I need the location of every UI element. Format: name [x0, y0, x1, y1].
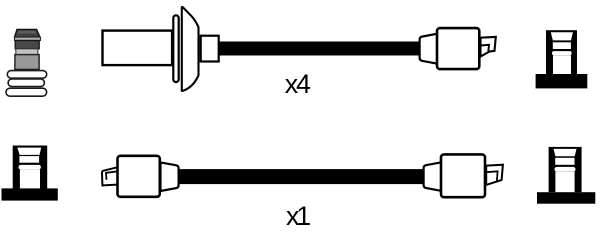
lead1 cable entry block — [201, 36, 219, 62]
connector icon bottom-right: cavity — [554, 149, 577, 195]
spark plug boot icon: lower light band — [16, 49, 38, 55]
spark plug boot icon: cap — [15, 29, 40, 37]
connector icon bottom-right: body block — [549, 147, 582, 192]
spark plug boot icon: rib 3 — [6, 88, 47, 96]
lead2 cable — [179, 169, 424, 184]
lead2 plug-end body right — [441, 154, 485, 197]
lead2 terminal clip right — [486, 165, 503, 185]
lead1 cable — [218, 42, 420, 56]
lead1 distributor-end rectangular terminal — [103, 31, 173, 66]
connector icon top-right: cavity — [551, 32, 573, 80]
lead2 terminal clip left — [102, 167, 118, 185]
label x4 — [285, 69, 311, 99]
connector icon bottom-left: body block — [13, 146, 48, 189]
connector icon top-right: base — [536, 74, 588, 88]
spark plug boot icon: upper light band — [15, 37, 41, 40]
connector icon bottom-right: base — [537, 192, 595, 204]
spark plug boot icon: dark collar — [15, 41, 39, 49]
lead1 washer disc — [173, 15, 178, 82]
label x1 — [286, 201, 311, 231]
spark plug boot icon: rib 1 — [7, 71, 46, 79]
lead2 neck left — [161, 162, 179, 191]
lead1 bell boot — [182, 7, 199, 91]
lead1 plug-end body — [437, 28, 479, 69]
connector icon top-right: body block — [546, 30, 577, 75]
spark plug boot icon: grey body — [15, 55, 39, 70]
svg-text:x4: x4 — [285, 69, 311, 99]
svg-text:x1: x1 — [286, 201, 311, 231]
lead2 plug-end body left — [118, 156, 160, 197]
connector icon bottom-left: cavity — [17, 148, 41, 193]
spark plug boot icon: rib 2 — [8, 79, 44, 87]
connector icon bottom-left: base — [2, 188, 58, 200]
lead1 terminal clip — [481, 37, 496, 57]
lead2 neck right — [424, 162, 442, 191]
lead1 plug-end neck — [420, 34, 438, 64]
